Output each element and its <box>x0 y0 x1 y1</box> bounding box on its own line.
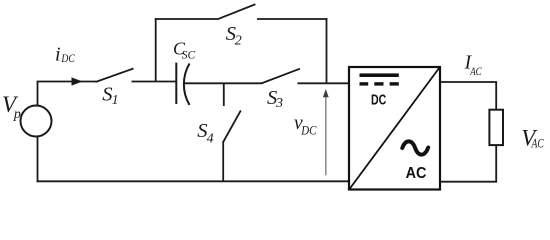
wire source bottom <box>37 136 39 182</box>
arrow vDC line <box>325 95 327 175</box>
wire S2 top right <box>257 18 327 20</box>
arrow vDC head <box>323 89 329 97</box>
wire S2 branch left vertical <box>155 18 157 81</box>
switch S4 blade <box>223 110 241 142</box>
switch S2 <box>217 4 255 19</box>
wire S3 right <box>298 82 350 84</box>
wire cap to S3 <box>185 82 262 84</box>
DC symbol solid bar <box>360 73 399 77</box>
capacitor CSC <box>176 63 189 105</box>
DC symbol dashed bar <box>360 82 399 85</box>
current arrow iDC <box>72 77 83 85</box>
wire main left <box>37 81 96 83</box>
wire S1 right <box>132 81 177 83</box>
wire S2 branch right vertical <box>326 18 328 83</box>
switch S4 bottom terminal <box>222 141 224 182</box>
switch S3 <box>261 69 300 84</box>
voltage source Vp <box>21 106 52 137</box>
converter U1 box <box>349 67 440 190</box>
switch S4 top terminal <box>223 83 225 107</box>
svg-text:DC: DC <box>371 93 387 109</box>
switch S1 <box>96 69 134 83</box>
wire source top <box>37 82 39 107</box>
converter diagonal <box>350 68 440 190</box>
wire box right top <box>440 82 496 110</box>
wire S2 top left <box>155 18 218 20</box>
AC sine symbol <box>402 141 428 154</box>
wire load bottom <box>440 145 496 182</box>
wire bottom rail <box>37 180 349 182</box>
svg-text:AC: AC <box>406 165 427 182</box>
resistor load <box>489 110 503 145</box>
